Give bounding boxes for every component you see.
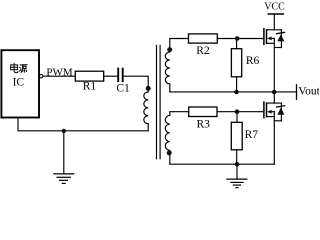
svg-text:R3: R3 — [197, 118, 211, 130]
svg-text:Vout: Vout — [298, 86, 319, 98]
svg-text:IC: IC — [13, 77, 25, 89]
svg-text:C1: C1 — [116, 83, 130, 95]
svg-text:PWM: PWM — [46, 67, 73, 79]
svg-text:VCC: VCC — [264, 2, 285, 13]
svg-text:R6: R6 — [246, 55, 260, 67]
svg-text:R2: R2 — [196, 45, 210, 57]
svg-text:R1: R1 — [83, 81, 97, 93]
svg-text:R7: R7 — [245, 129, 259, 141]
